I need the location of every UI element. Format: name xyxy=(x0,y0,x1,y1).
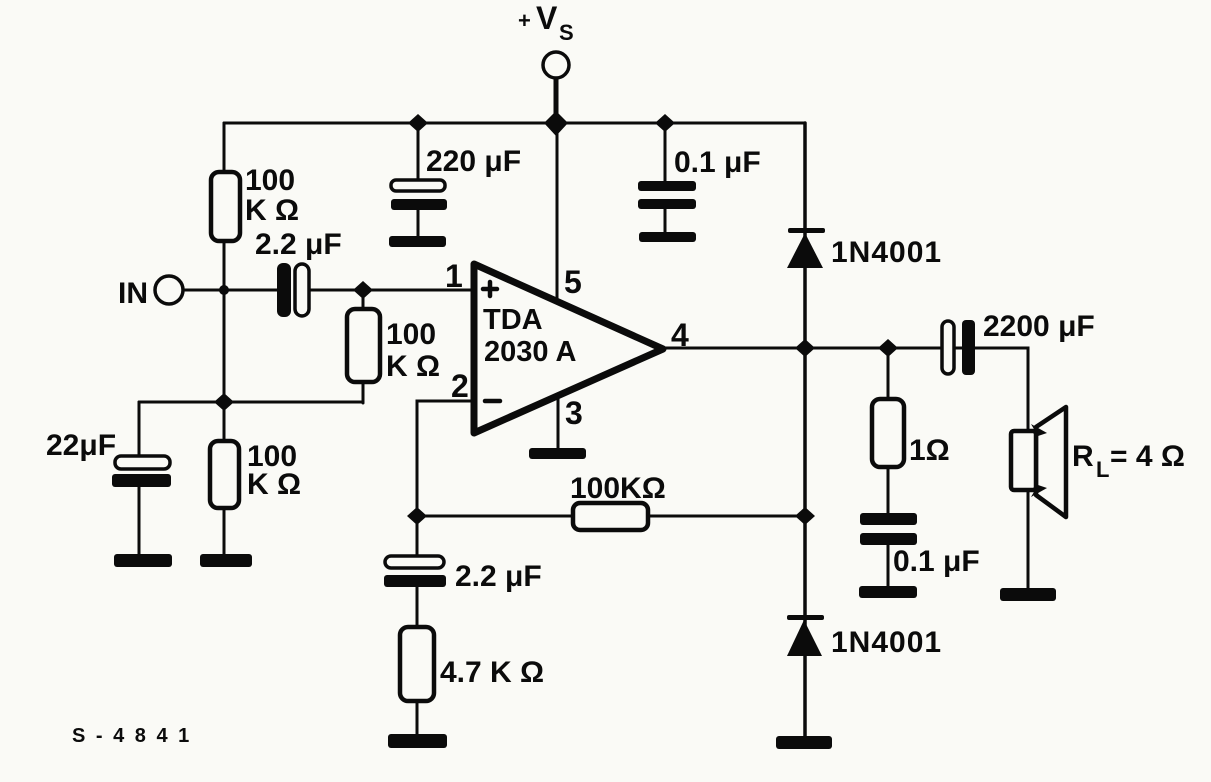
svg-text:L: L xyxy=(1096,457,1109,482)
svg-text:TDA: TDA xyxy=(483,304,543,336)
svg-text:100: 100 xyxy=(386,318,436,351)
svg-text:0.1 μF: 0.1 μF xyxy=(893,545,980,578)
svg-text:IN: IN xyxy=(118,277,148,310)
svg-text:K Ω: K Ω xyxy=(247,468,301,501)
svg-text:100KΩ: 100KΩ xyxy=(570,472,666,505)
svg-text:2.2 μF: 2.2 μF xyxy=(255,228,342,261)
svg-text:3: 3 xyxy=(565,395,583,431)
svg-text:1Ω: 1Ω xyxy=(909,434,950,467)
svg-text:5: 5 xyxy=(564,264,582,300)
svg-text:S - 4 8 4 1: S - 4 8 4 1 xyxy=(72,725,192,747)
svg-text:4.7 K Ω: 4.7 K Ω xyxy=(440,656,544,689)
svg-text:22μF: 22μF xyxy=(46,429,116,462)
svg-text:= 4 Ω: = 4 Ω xyxy=(1110,440,1185,473)
svg-text:V: V xyxy=(536,0,558,36)
svg-text:2.2 μF: 2.2 μF xyxy=(455,560,542,593)
svg-text:220 μF: 220 μF xyxy=(426,145,521,178)
svg-text:R: R xyxy=(1072,440,1094,473)
svg-text:1: 1 xyxy=(445,258,463,294)
svg-text:4: 4 xyxy=(671,317,689,353)
svg-text:+: + xyxy=(518,8,531,33)
svg-text:1N4001: 1N4001 xyxy=(831,626,942,659)
svg-text:S: S xyxy=(559,20,574,45)
svg-text:2030 A: 2030 A xyxy=(484,336,576,368)
svg-text:0.1 μF: 0.1 μF xyxy=(674,146,761,179)
svg-text:1N4001: 1N4001 xyxy=(831,236,942,269)
svg-text:2200 μF: 2200 μF xyxy=(983,310,1095,343)
svg-text:K Ω: K Ω xyxy=(245,194,299,227)
svg-text:K Ω: K Ω xyxy=(386,350,440,383)
svg-text:2: 2 xyxy=(451,368,469,404)
svg-text:100: 100 xyxy=(245,164,295,197)
